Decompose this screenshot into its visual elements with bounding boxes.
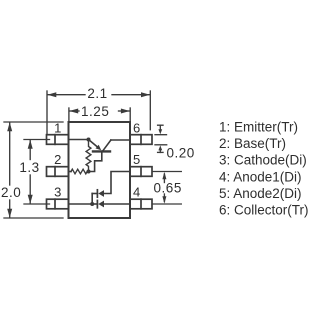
svg-text:3: 3 [54, 184, 61, 199]
svg-text:4: 4 [133, 184, 140, 199]
svg-text:0.20: 0.20 [167, 146, 195, 161]
wire node C up to diode D2 [91, 194, 93, 205]
legend pin functions [219, 119, 309, 217]
dimension 2.1 line and arrows [47, 92, 150, 97]
pin 3 [47, 199, 69, 209]
node A junction dot [87, 138, 91, 142]
node C junction dot [90, 202, 94, 206]
wire pin3 to node C [69, 203, 93, 205]
pin 5 [130, 167, 152, 177]
svg-text:1.3: 1.3 [19, 160, 39, 175]
svg-text:6: 6 [133, 121, 140, 136]
package body [69, 122, 131, 218]
svg-text:4: Anode1(Di): 4: Anode1(Di) [219, 169, 302, 184]
dimension 2.1 extension line right [149, 91, 151, 130]
wire diode D1 to pin4 [104, 203, 130, 205]
svg-text:3: Cathode(Di): 3: Cathode(Di) [219, 153, 307, 168]
svg-text:1: 1 [54, 121, 61, 136]
dimension 0.20 tick bottom [155, 144, 167, 146]
dimension 1.3 line and arrows [28, 140, 33, 204]
svg-text:5: Anode2(Di): 5: Anode2(Di) [219, 186, 302, 201]
dimension 1.25 line and arrows [69, 109, 130, 114]
dimension 0.65 tick top [153, 171, 182, 173]
transistor Q1 collector [103, 140, 130, 150]
pin 1 [47, 135, 69, 145]
dimension 0.20 arrow lower [158, 145, 163, 152]
resistor R1 (horizontal, pin2 to node B) [71, 169, 89, 174]
dimension 1.3 tick bottom [24, 203, 50, 205]
dimension 2.0 line and arrows [7, 122, 12, 217]
wire pin1 to node A [69, 139, 89, 141]
svg-text:2: 2 [54, 152, 61, 167]
dimension 2.1 extension line left [46, 91, 48, 135]
diode D1 (anode1, lower) [92, 200, 104, 207]
svg-text:2.1: 2.1 [87, 86, 107, 101]
dimension 1.3 tick top [24, 139, 50, 141]
dimension 0.65 arrow up [162, 172, 166, 183]
svg-text:0.65: 0.65 [154, 181, 182, 196]
wire pin5 to diode D2 (stepped) [104, 172, 130, 194]
svg-text:6: Collector(Tr): 6: Collector(Tr) [219, 203, 309, 218]
dimension 2.0 extension line top [4, 121, 63, 123]
dimension 0.20 arrow upper [158, 125, 163, 134]
resistor R2 (vertical, node A to node B) [86, 140, 91, 172]
node B junction dot [87, 170, 91, 174]
diode D2 (anode2, upper) [92, 190, 104, 197]
dimension 1.25 extension line right [129, 108, 131, 121]
pin 4 [130, 199, 152, 209]
svg-text:5: 5 [133, 152, 140, 167]
dimension 2.0 extension line bottom [4, 217, 63, 219]
wire pin2 stub [69, 171, 72, 173]
dimension 0.20 tick top [155, 134, 167, 136]
svg-text:1: Emitter(Tr): 1: Emitter(Tr) [219, 119, 298, 134]
svg-text:2: Base(Tr): 2: Base(Tr) [219, 136, 286, 151]
svg-text:2.0: 2.0 [1, 185, 21, 200]
dimension 1.25 extension line left [68, 108, 70, 121]
transistor Q1 base bar [93, 150, 110, 152]
pin 2 [47, 167, 69, 177]
transistor Q1 emitter (arrow into base bar, PNP) [89, 140, 102, 151]
dimension 0.65 tick bottom [153, 203, 182, 205]
pin 6 [130, 135, 152, 145]
svg-text:1.25: 1.25 [81, 104, 109, 119]
dimension 0.65 arrow down [162, 194, 166, 204]
wire node B to base (stepped) [89, 151, 102, 171]
